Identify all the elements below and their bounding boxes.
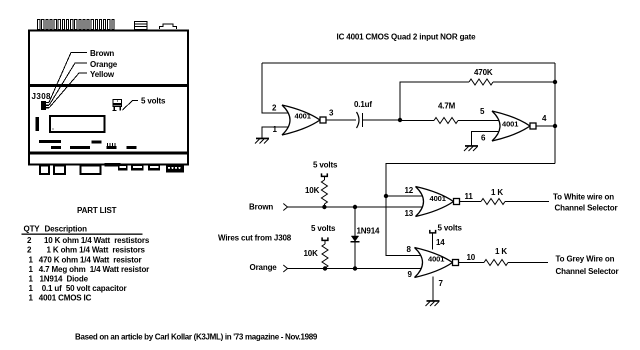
svg-text:1: 1 xyxy=(29,265,34,274)
op U1A NOR gate xyxy=(282,105,326,135)
svg-text:2: 2 xyxy=(27,246,32,255)
svg-text:10K: 10K xyxy=(305,186,320,195)
leader line 5 volts xyxy=(123,101,139,111)
svg-text:5 volts: 5 volts xyxy=(141,97,166,106)
svg-text:1: 1 xyxy=(29,284,34,293)
wire: 470K to right bus xyxy=(493,81,555,83)
input chevron Brown xyxy=(283,204,287,211)
svg-text:QTY: QTY xyxy=(24,225,41,234)
svg-text:13: 13 xyxy=(405,209,414,218)
svg-text:3: 3 xyxy=(329,109,334,118)
resistor 1K R4 xyxy=(484,260,508,266)
bottom connector B xyxy=(54,166,65,175)
svg-text:1N914 Diode: 1N914 Diode xyxy=(40,275,89,284)
svg-text:Brown: Brown xyxy=(249,203,273,212)
svg-text:Brown: Brown xyxy=(90,49,114,58)
wire: pin 7 stem to ground xyxy=(432,276,434,301)
leader line Brown xyxy=(49,53,87,103)
display window xyxy=(50,116,105,132)
wire: left feedback vertical to pin 2 xyxy=(262,63,289,113)
5 volt regulator icon xyxy=(112,100,121,111)
svg-text:4001: 4001 xyxy=(502,120,518,129)
svg-text:4: 4 xyxy=(542,114,547,123)
svg-text:Channel Selector: Channel Selector xyxy=(556,267,619,276)
svg-text:5: 5 xyxy=(480,107,485,116)
svg-text:2: 2 xyxy=(272,104,277,113)
svg-text:PART LIST: PART LIST xyxy=(77,206,117,215)
divider line xyxy=(28,84,189,87)
svg-text:4001 CMOS IC: 4001 CMOS IC xyxy=(39,294,92,303)
svg-text:Wires cut from J308: Wires cut from J308 xyxy=(218,234,292,243)
svg-text:14: 14 xyxy=(436,238,445,247)
svg-text:1 K: 1 K xyxy=(495,247,507,256)
svg-text:5 volts: 5 volts xyxy=(438,224,463,233)
svg-text:Yellow: Yellow xyxy=(90,70,115,79)
svg-text:9: 9 xyxy=(408,270,413,279)
junction dot diode/Orange xyxy=(353,266,357,270)
wire: gate1 output to capacitor xyxy=(326,119,356,121)
svg-text:Orange: Orange xyxy=(90,60,118,69)
svg-text:1: 1 xyxy=(29,275,34,284)
svg-text:To White wire on: To White wire on xyxy=(553,193,614,202)
svg-text:11: 11 xyxy=(465,192,474,201)
wire: pin 1 to ground xyxy=(262,127,289,139)
svg-text:5 volts: 5 volts xyxy=(313,161,338,170)
input chevron Orange xyxy=(283,265,287,272)
pcb bar 5 xyxy=(127,146,137,149)
svg-text:IC 4001 CMOS Quad 2 input NOR: IC 4001 CMOS Quad 2 input NOR gate xyxy=(337,33,477,42)
resistor 10K R1 (vertical) xyxy=(321,180,327,204)
node junction dot xyxy=(398,118,402,122)
svg-text:470 K ohm 1/4 Watt resistor: 470 K ohm 1/4 Watt resistor xyxy=(39,255,142,264)
chassis outer box xyxy=(29,31,188,165)
heat sink fins xyxy=(38,20,114,30)
junction dot 470K/bus xyxy=(553,80,557,84)
svg-text:To Grey Wire on: To Grey Wire on xyxy=(556,255,615,264)
svg-text:1 K: 1 K xyxy=(491,188,503,197)
resistor 470K xyxy=(469,79,493,85)
wire: 1K to output grey xyxy=(508,262,548,264)
wire: node riser to 470K line xyxy=(400,82,469,120)
svg-text:1N914: 1N914 xyxy=(357,227,381,236)
svg-text:4001: 4001 xyxy=(428,255,444,264)
wire: node to 4.7M xyxy=(400,120,434,122)
svg-text:J308: J308 xyxy=(32,92,52,101)
op U1D NOR gate xyxy=(415,248,459,278)
leader line Orange xyxy=(49,63,87,105)
svg-text:Orange: Orange xyxy=(250,263,278,272)
wire: 4.7M to pin 5 xyxy=(458,120,499,122)
wire: gate3 output to 1K xyxy=(460,201,482,203)
svg-text:4.7 Meg ohm 1/4 Watt resistor: 4.7 Meg ohm 1/4 Watt resistor xyxy=(39,265,149,274)
pcb bar 1 xyxy=(39,140,61,143)
pcb comb component xyxy=(108,143,116,146)
wire: pin 6 to ground xyxy=(472,132,499,147)
svg-text:8: 8 xyxy=(407,245,412,254)
bottom tab 2 xyxy=(131,164,144,171)
bottom serial block xyxy=(166,164,184,173)
pcb bar 4 xyxy=(92,141,102,144)
svg-text:12: 12 xyxy=(405,186,414,195)
svg-text:1: 1 xyxy=(29,255,34,264)
leader line Yellow xyxy=(49,73,87,108)
resistor 1K R3 xyxy=(481,199,505,205)
svg-text:10K: 10K xyxy=(304,249,319,258)
wire: gate4 output to 1K xyxy=(459,262,485,264)
svg-text:7: 7 xyxy=(439,279,444,288)
svg-text:Description: Description xyxy=(45,225,88,234)
svg-text:4.7M: 4.7M xyxy=(438,102,456,111)
button on rear xyxy=(160,24,177,29)
wire: tap to pin 12 xyxy=(386,195,422,197)
svg-text:5 volts: 5 volts xyxy=(311,224,336,233)
vented block on rear xyxy=(135,22,148,30)
junction dot pin12 tap xyxy=(384,194,388,198)
junction dot diode/Brown xyxy=(353,205,357,209)
wire: pin 14 stem xyxy=(432,234,434,250)
left vertical bar component xyxy=(36,117,40,131)
bottom tab 1 xyxy=(118,164,128,171)
svg-text:2: 2 xyxy=(27,236,32,245)
diode 1N914 xyxy=(354,207,356,269)
svg-text:1 K ohm 1/4 Watt resistors: 1 K ohm 1/4 Watt resistors xyxy=(47,246,146,255)
capacitor C1 0.1uf xyxy=(357,112,360,128)
wire: capacitor to node xyxy=(363,119,401,121)
bottom tab 3 xyxy=(148,164,160,171)
op U1B NOR gate xyxy=(492,111,536,141)
svg-text:470K: 470K xyxy=(474,68,493,77)
bottom connector A xyxy=(40,166,49,175)
svg-text:1: 1 xyxy=(29,294,34,303)
op U1C NOR gate xyxy=(416,187,460,217)
wire: gate2 output pin4 to bus xyxy=(536,125,555,127)
svg-text:4001: 4001 xyxy=(295,112,311,121)
svg-text:0.1uf: 0.1uf xyxy=(354,100,372,109)
wire: Orange line to pin 9 xyxy=(288,268,422,270)
ground at gate U1B pin6 xyxy=(464,145,478,151)
junction dot pin4/bus xyxy=(553,124,557,128)
svg-text:0.1 uf 50 volt capacitor: 0.1 uf 50 volt capacitor xyxy=(42,284,127,293)
svg-text:4001: 4001 xyxy=(430,194,446,203)
wire: Brown line to pin 13 xyxy=(288,206,423,208)
junction dot R2/Orange xyxy=(323,266,327,270)
resistor 10K R2 (vertical) xyxy=(322,244,328,268)
wire: right vertical bus xyxy=(554,63,556,164)
ground at gate U1A pin1 xyxy=(255,138,269,144)
pcb bar 3 xyxy=(70,146,90,149)
wire: bus bottom to left xyxy=(386,164,555,256)
resistor 4.7M xyxy=(434,118,458,124)
ground at gate U1D pin7 xyxy=(426,300,440,306)
svg-text:10 K ohm 1/4 Watt restistors: 10 K ohm 1/4 Watt restistors xyxy=(44,236,150,245)
wire: 1K to output xyxy=(505,201,549,203)
junction dot R1/Brown xyxy=(322,205,326,209)
svg-text:Based on an article by Carl Ko: Based on an article by Carl Kollar (K3JM… xyxy=(75,333,318,342)
bottom connector C xyxy=(81,166,101,175)
wire: top feedback horizontal xyxy=(262,62,555,64)
svg-text:6: 6 xyxy=(481,134,486,143)
header underline xyxy=(22,234,143,235)
svg-text:10: 10 xyxy=(467,253,476,262)
pcb bar 2 xyxy=(51,146,61,149)
svg-text:Channel Selector: Channel Selector xyxy=(555,204,618,213)
J308 connector (black) xyxy=(41,101,49,110)
pcb bottom thick line xyxy=(28,152,189,155)
svg-text:1: 1 xyxy=(273,125,278,134)
bottom black bar xyxy=(105,163,121,167)
